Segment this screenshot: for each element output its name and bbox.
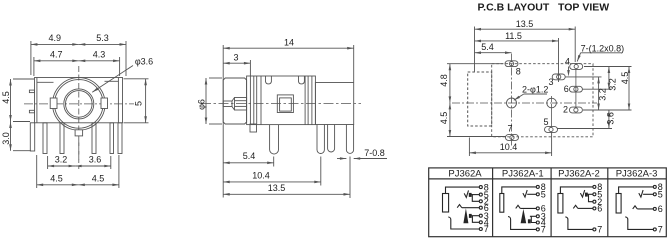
front view: jack hole inner ring <box>66 91 93 118</box>
svg-text:4.5: 4.5 <box>439 112 449 125</box>
schematic PJ362A-2: terminal 7 <box>593 228 596 231</box>
pcb dimension 3.2 (pads 3-2) <box>598 77 600 110</box>
svg-text:3: 3 <box>549 77 554 87</box>
schematic PJ362A-1: break contact on 6 <box>516 205 521 208</box>
front view: inner shoulder line right <box>105 80 119 82</box>
table: column line 2 <box>550 168 552 237</box>
schematic PJ362A-3: wire to terminal 8 <box>619 187 654 194</box>
pcb dimension 11.5 <box>558 38 560 82</box>
svg-text:7: 7 <box>597 225 602 235</box>
front view: left lug <box>50 98 57 109</box>
front view: body inner left edge <box>36 78 38 123</box>
svg-text:2-φ1.2: 2-φ1.2 <box>522 84 548 94</box>
pcb: vertical centerline through pads 8-7 <box>511 54 513 147</box>
svg-text:5: 5 <box>133 101 143 106</box>
svg-text:7-0.8: 7-0.8 <box>364 148 385 158</box>
dimension phi 6 <box>209 77 222 79</box>
schematic PJ362A: wire terminal 3 <box>471 215 479 217</box>
side view: rib line <box>311 76 313 125</box>
schematic PJ362A-1: wire terminal 3 <box>530 215 536 217</box>
schematic PJ362A: break contact on 6 <box>457 205 462 208</box>
svg-text:10.4: 10.4 <box>252 171 270 181</box>
side view: rear leg 1 <box>317 125 324 154</box>
schematic PJ362A-3: hook wire terminal 7 <box>625 217 653 230</box>
schematic PJ362A-3: terminal 5 <box>653 193 656 196</box>
svg-text:PJ362A: PJ362A <box>448 168 482 179</box>
pcb: line through pads 4 6 2 <box>575 69 577 107</box>
svg-text:7-(1.2x0.8): 7-(1.2x0.8) <box>581 44 625 54</box>
svg-text:4.3: 4.3 <box>93 50 106 60</box>
schematic PJ362A-1: wire terminal 6 <box>520 207 536 209</box>
schematic PJ362A-1: wire terminal 5 <box>527 193 536 195</box>
svg-text:φ6: φ6 <box>196 99 206 110</box>
pcb dimension 5.4 <box>475 52 512 54</box>
table: outer border <box>429 168 667 237</box>
svg-text:14: 14 <box>284 38 294 48</box>
schematic PJ362A-3: terminal 8 <box>653 185 656 188</box>
svg-text:2: 2 <box>563 105 568 115</box>
svg-text:5: 5 <box>658 190 663 200</box>
table: column line 1 <box>492 168 494 237</box>
svg-text:10.4: 10.4 <box>500 142 518 152</box>
pcb: footprint outline main part (dashed) <box>492 64 593 137</box>
dimension 4.7 <box>33 57 35 76</box>
svg-text:3.6: 3.6 <box>89 155 102 165</box>
side view: rib line <box>249 76 251 125</box>
schematic PJ362A: wire to terminal 8 <box>446 187 480 193</box>
svg-text:PJ362A-3: PJ362A-3 <box>616 168 658 179</box>
svg-text:3.2: 3.2 <box>597 88 607 101</box>
schematic PJ362A-1: terminal 4 <box>536 221 539 224</box>
dimension 3 <box>249 60 251 76</box>
side view: inner square inner <box>280 98 292 111</box>
schematic PJ362A-3: terminal 6 <box>653 207 656 210</box>
svg-text:4.9: 4.9 <box>49 33 62 43</box>
pcb: mounting hole left <box>507 98 517 108</box>
pcb: small arrow pad4 to pad3 row <box>568 67 570 75</box>
schematic PJ362A: terminal 7 <box>479 228 482 231</box>
dimension 3.2 bottom <box>47 156 49 169</box>
front view: bottom tab <box>75 130 83 136</box>
schematic PJ362A: terminal 5 <box>479 193 482 196</box>
schematic PJ362A-2: wire to terminal 8 <box>560 187 592 194</box>
side view: top slot right <box>299 76 305 84</box>
svg-text:3.2: 3.2 <box>55 155 68 165</box>
schematic PJ362A-3: wire terminal 6 <box>637 208 653 210</box>
pcb: pad 5 <box>545 127 558 133</box>
pcb: pad 8 <box>505 61 518 67</box>
front view: bushing inner ring <box>55 80 104 129</box>
side view: rib line <box>304 76 306 125</box>
pcb: footprint outline left part (dashed) <box>468 72 492 126</box>
table: header separator <box>429 178 667 180</box>
dimension 14 <box>222 45 224 198</box>
schematic PJ362A: wire terminal 5 <box>471 194 479 196</box>
svg-text:5.3: 5.3 <box>96 33 109 43</box>
svg-text:8: 8 <box>516 67 521 77</box>
schematic PJ362A-2: wire terminal 5 <box>587 193 592 195</box>
svg-text:11.5: 11.5 <box>505 31 522 41</box>
dimension 13.5 side <box>349 157 351 199</box>
dimension 3.0 left <box>13 150 31 152</box>
side view: rear leg 2 <box>328 125 335 153</box>
schematic PJ362A: contact tick 3 <box>469 214 471 217</box>
front view: vertical centerline <box>78 66 80 160</box>
dimension 4.5 4.5 bottom <box>36 155 38 188</box>
schematic PJ362A-2: break contact on 6 <box>573 205 578 208</box>
schematic PJ362A: terminal 6 <box>479 206 482 209</box>
schematic PJ362A-3: wire terminal 5 <box>643 193 653 195</box>
svg-text:4.5: 4.5 <box>50 173 63 183</box>
schematic PJ362A-1: terminal 8 <box>536 185 539 188</box>
pcb: line hole to pad 5 <box>551 110 553 127</box>
svg-text:6: 6 <box>564 84 569 94</box>
schematic PJ362A-2: terminal 5 <box>593 193 596 196</box>
pcb right extension lines <box>584 66 632 68</box>
schematic PJ362A: wire terminal 6 <box>462 207 479 209</box>
schematic PJ362A-2: sleeve bar <box>558 194 563 214</box>
schematic PJ362A-2: wire terminal 6 <box>578 207 593 209</box>
front view: leg 3 <box>92 123 96 154</box>
svg-text:7: 7 <box>541 225 546 235</box>
front view: jack hole circle <box>64 89 94 119</box>
front view: leg 2 <box>60 123 64 154</box>
front view: leg 5 <box>118 123 122 154</box>
svg-text:3.6: 3.6 <box>605 112 615 125</box>
svg-text:7: 7 <box>484 224 489 234</box>
svg-text:4.5: 4.5 <box>92 173 105 183</box>
label phi 3.6 with leader <box>92 66 133 93</box>
side view: rib line <box>253 76 255 125</box>
side view: front leg <box>270 125 279 154</box>
pcb: pad 4 <box>570 64 583 70</box>
side view: bushing <box>223 78 246 124</box>
front view: inner shoulder line left <box>37 81 54 83</box>
schematic PJ362A-1: sleeve bar <box>500 194 504 213</box>
pcb dimension 3.2 (pads 4-6) <box>608 67 610 90</box>
pcb dimension 3.6 (pads 2-5) <box>608 110 610 129</box>
svg-text:PJ362A-2: PJ362A-2 <box>558 168 600 179</box>
svg-text:4.5: 4.5 <box>620 72 630 85</box>
schematic PJ362A-1: terminal 3 <box>536 215 539 218</box>
svg-text:3: 3 <box>233 52 238 62</box>
svg-text:7: 7 <box>658 225 663 235</box>
schematic PJ362A-2: switch contact on 5 <box>580 190 584 197</box>
side view: back block <box>315 83 353 125</box>
schematic PJ362A-1: switch contact on 5 <box>523 190 527 197</box>
schematic PJ362A: terminal 3 <box>479 214 482 217</box>
side view: bottom tab under bushing <box>250 124 257 132</box>
dimension 4.5 left <box>13 78 34 80</box>
pcb dimension 4.8 left <box>447 63 503 65</box>
front view: connector body <box>35 78 123 123</box>
pcb: pad 7 <box>506 135 519 141</box>
svg-text:4: 4 <box>565 57 570 67</box>
schematic PJ362A-1: wire to terminal 8 <box>502 187 536 194</box>
schematic PJ362A-2: bracket 5 to 2 <box>589 194 593 201</box>
schematic PJ362A: sleeve bar <box>443 194 449 213</box>
svg-text:5.4: 5.4 <box>243 151 256 161</box>
front view: left side pin lower <box>29 110 34 113</box>
schematic PJ362A: terminal 4 <box>479 221 482 224</box>
side view: top slot left <box>266 76 272 84</box>
schematic PJ362A-1: hook wire terminal 7 <box>508 217 536 230</box>
svg-text:13.5: 13.5 <box>268 183 286 193</box>
svg-text:φ3.6: φ3.6 <box>135 57 153 67</box>
dimension 5.3 <box>79 43 126 45</box>
svg-text:3.2: 3.2 <box>608 78 618 91</box>
side view: center pin <box>223 101 232 107</box>
pcb: pad 6 <box>569 86 582 92</box>
schematic PJ362A-2: hook wire terminal 7 <box>565 217 593 230</box>
pcb: mounting hole right <box>547 98 557 108</box>
schematic PJ362A-1: terminal 7 <box>536 228 539 231</box>
front view: body inner right edge <box>117 78 119 123</box>
schematic PJ362A-1: terminal 5 <box>536 193 539 196</box>
pcb: horizontal centerline <box>452 102 597 104</box>
front view: leg 4 <box>110 123 114 154</box>
dimension 4.3 <box>79 60 120 62</box>
svg-text:6: 6 <box>597 204 602 214</box>
side view: rib line <box>256 76 258 125</box>
dimension 4.9 <box>30 41 32 75</box>
side view: rib line <box>260 76 262 125</box>
label 7-0.8 <box>337 158 346 160</box>
pcb: short centerline through right hole <box>551 96 553 110</box>
schematic PJ362A: terminal 2 <box>479 200 482 203</box>
pcb dimension 4.5 left <box>447 136 506 138</box>
schematic PJ362A-2: terminal 6 <box>593 207 596 210</box>
svg-text:5: 5 <box>541 190 546 200</box>
schematic PJ362A: terminal 8 <box>479 186 482 189</box>
schematic PJ362A-3: sleeve bar <box>616 194 621 214</box>
svg-text:5.4: 5.4 <box>481 42 494 52</box>
dimension 3.6 bottom <box>75 165 111 167</box>
side view: main body <box>247 76 316 125</box>
schematic PJ362A: switch contact on 5 <box>464 190 468 197</box>
svg-text:7: 7 <box>508 124 513 134</box>
side view: rib line <box>307 76 309 125</box>
schematic PJ362A: bracket 3 to 4 <box>472 216 479 223</box>
schematic PJ362A-1: tip spring triangle <box>521 209 527 223</box>
schematic PJ362A: contact tick 5 <box>469 193 471 196</box>
svg-text:P.C.B LAYOUT TOP VIEW: P.C.B LAYOUT TOP VIEW <box>478 2 610 14</box>
schematic PJ362A-2: terminal 8 <box>593 185 596 188</box>
schematic PJ362A-2: terminal 2 <box>593 200 596 203</box>
schematic PJ362A-1: contact tick 3 <box>528 220 530 223</box>
side view: rear leg 3 <box>346 125 353 154</box>
schematic PJ362A: tip spring triangle <box>463 208 468 223</box>
svg-text:3.0: 3.0 <box>1 132 11 145</box>
schematic PJ362A-3: switch contact on 5 <box>639 190 643 197</box>
schematic PJ362A: hook wire terminal 7 <box>448 217 479 229</box>
schematic PJ362A: bracket 5 to 2 <box>472 195 479 202</box>
schematic PJ362A-3: terminal 7 <box>653 228 656 231</box>
pcb dimension 10.4 <box>468 138 470 157</box>
svg-text:4.7: 4.7 <box>50 50 63 60</box>
front view: left side pin upper <box>29 90 34 93</box>
dimension 10.4 side <box>320 157 322 186</box>
front view: leg 1 <box>43 123 47 154</box>
front view: left flange leg <box>30 123 34 151</box>
pcb dimension 13.5 <box>474 27 476 72</box>
svg-text:PJ362A-1: PJ362A-1 <box>502 168 544 179</box>
table: column line 3 <box>607 168 609 237</box>
front view: bushing outer circle <box>53 78 106 131</box>
side view: inner square outer <box>277 95 293 113</box>
front view: horizontal centerline <box>24 103 134 105</box>
pcb: pad 3 <box>552 74 565 80</box>
svg-text:4.8: 4.8 <box>439 74 449 87</box>
schematic PJ362A-2: contact tick 5 <box>585 193 587 196</box>
schematic PJ362A-1: terminal 6 <box>536 207 539 210</box>
svg-text:13.5: 13.5 <box>516 19 534 29</box>
schematic PJ362A-3: break contact on 6 <box>633 206 638 209</box>
side view: centerline <box>201 103 361 105</box>
svg-text:5: 5 <box>544 117 549 127</box>
svg-text:6: 6 <box>658 204 663 214</box>
dimension 5 right <box>124 78 149 80</box>
front view: right lug <box>101 98 108 109</box>
svg-text:4.5: 4.5 <box>1 91 11 104</box>
pcb: pad 2 <box>569 107 582 113</box>
pcb dimension 4.5 (pads 4-2) <box>628 67 630 111</box>
schematic PJ362A-1: bracket 3 to 4 <box>531 216 536 222</box>
dimension 5.4 side <box>273 157 275 167</box>
